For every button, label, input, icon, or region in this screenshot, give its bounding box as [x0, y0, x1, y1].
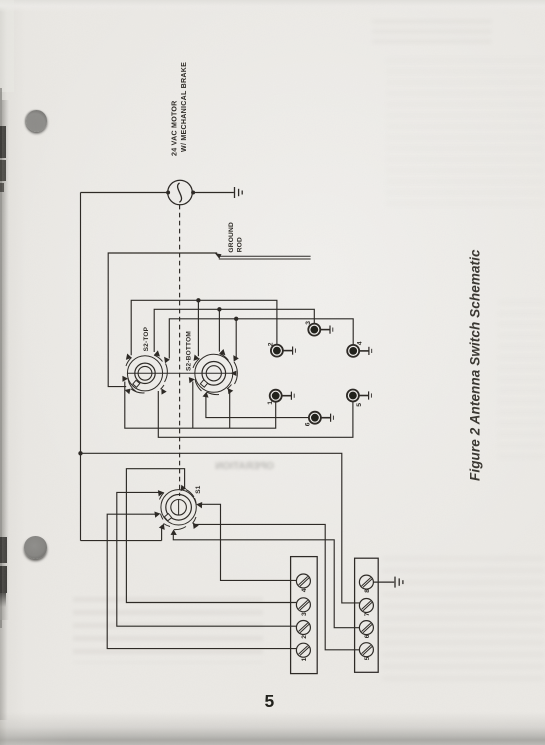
wire: S2-TOP contact C to antenna jack 4 (run y=319)	[169, 319, 353, 359]
wire: S1 right contact to screw 4	[199, 504, 297, 580]
svg-text:3: 3	[301, 612, 308, 616]
wire: S2-TOP contact B to antenna jack 3 (run y=309)	[154, 309, 314, 352]
node: motor left terminal dot	[166, 191, 170, 195]
antenna jack J4	[347, 345, 372, 357]
left binding edge	[0, 88, 2, 628]
wire: S2-TOP contact E to antenna jack 5 (run y=437)	[158, 391, 353, 437]
S2-BOTTOM contact spring arcs	[193, 354, 237, 395]
wire: S2-BOTTOM contact F drop	[229, 391, 231, 429]
wire: motor left lead	[81, 192, 168, 194]
svg-text:5: 5	[265, 691, 275, 711]
antenna jack J5	[347, 390, 372, 402]
svg-text:6: 6	[304, 422, 311, 426]
S2-BOTTOM contact arrows	[189, 349, 239, 398]
S1 contact spring arcs	[160, 490, 197, 530]
antenna jack J2	[271, 345, 296, 357]
wire: S1 upper-left contact to screw 2	[117, 492, 297, 626]
screw terminal 3	[296, 598, 310, 612]
rotary switch S2-BOTTOM body	[195, 354, 233, 392]
svg-text:24 VAC MOTOR: 24 VAC MOTOR	[170, 100, 178, 156]
svg-text:1: 1	[267, 401, 274, 405]
svg-text:5: 5	[364, 656, 371, 660]
svg-text:S2-TOP: S2-TOP	[143, 326, 150, 351]
antenna jack J3	[308, 324, 333, 336]
svg-text:4: 4	[301, 588, 308, 592]
junction node on motor feed	[78, 451, 82, 455]
ground symbol at motor	[235, 187, 243, 198]
svg-text:2: 2	[301, 635, 308, 639]
terminal strip TB1	[291, 557, 318, 674]
wire: branch down to S2-BOTTOM contact A	[197, 300, 199, 356]
svg-text:3: 3	[305, 321, 312, 325]
wire: S1 lower-left contact drop to motor feed run	[161, 526, 163, 541]
wire: S2-BOTTOM contact E to antenna jack 6	[206, 396, 309, 418]
junction node feeding S2-BOTTOM contact C	[234, 317, 238, 321]
svg-text:1: 1	[301, 657, 308, 661]
S2-TOP contact spring arcs	[126, 355, 167, 393]
label GROUND ROD	[228, 222, 244, 253]
wire: screw 8 to earth ground	[373, 581, 394, 583]
rotary switch S2-TOP body	[127, 356, 232, 391]
screw terminal 8	[359, 575, 373, 589]
wire: ground rod lead	[108, 253, 217, 387]
binder hole bottom	[24, 536, 46, 558]
junction node feeding S2-BOTTOM contact A	[196, 298, 200, 302]
svg-text:S2-BOTTOM: S2-BOTTOM	[186, 331, 193, 371]
antenna jack J1	[270, 390, 295, 402]
screw terminal 6	[359, 621, 373, 635]
svg-text:GROUND: GROUND	[228, 222, 235, 253]
screw terminal 7	[359, 599, 373, 613]
svg-text:7: 7	[364, 612, 371, 616]
terminal strip TB2	[355, 558, 379, 672]
wire: junction to terminal screw 7	[81, 453, 360, 603]
wire: S1 bottom contact to screw 6	[173, 532, 359, 628]
screw terminal 2	[296, 621, 310, 635]
svg-text:W/ MECHANICAL BRAKE: W/ MECHANICAL BRAKE	[180, 62, 188, 152]
binder hole top	[26, 110, 48, 132]
arrowhead at ground rod	[215, 253, 222, 259]
wire: S2-TOP contact A to antenna jack 2 (top run y=300)	[131, 300, 277, 355]
wire: motor feed down left side	[80, 193, 82, 541]
wire: S2-BOTTOM contact D drop	[192, 382, 194, 429]
node: motor right terminal dot	[191, 191, 195, 195]
svg-text:4: 4	[357, 341, 364, 345]
S2-TOP contact arrows	[122, 350, 170, 396]
svg-text:6: 6	[364, 634, 371, 638]
svg-text:2: 2	[267, 342, 274, 346]
rotary switch S1 body	[161, 490, 196, 525]
dashed mechanical link line from motor through S2 to S1	[179, 205, 181, 496]
junction node feeding S2-BOTTOM contact B	[217, 307, 221, 311]
svg-text:ROD: ROD	[237, 237, 244, 252]
antenna jack J6	[309, 412, 334, 424]
wire: S1 top contact to screw 3	[126, 469, 296, 603]
wire: S1 lower-right contact to screw 5	[196, 524, 360, 649]
bleed-through text blocks (faint)	[372, 19, 492, 47]
wire: motor feed bottom run to S1 common contact	[81, 540, 162, 542]
screw terminal 1	[296, 643, 310, 657]
S1 contact arrows	[154, 484, 202, 535]
wire: branch down to S2-BOTTOM contact B	[218, 309, 220, 351]
screw terminal 4	[296, 574, 310, 588]
wire: motor right lead to ground	[193, 192, 234, 194]
svg-text:8: 8	[364, 589, 371, 593]
earth ground at screw 8	[395, 577, 403, 588]
motor B1 circle	[168, 180, 193, 205]
wire: branch down to S2-BOTTOM contact C	[235, 319, 237, 358]
svg-text:S1: S1	[195, 485, 202, 494]
motor label 24 VAC MOTOR W/ MECHANICAL BRAKE	[170, 62, 188, 156]
wire: antenna jack 1 common run y=428	[125, 382, 276, 429]
ground rod (double line)	[219, 256, 311, 259]
svg-text:Figure 2 Antenna Switch Schem: Figure 2 Antenna Switch Schematic	[468, 249, 483, 481]
svg-text:5: 5	[356, 403, 363, 407]
screw terminal 5	[359, 643, 373, 657]
wire: S1 left contact to screw 1	[107, 514, 296, 648]
